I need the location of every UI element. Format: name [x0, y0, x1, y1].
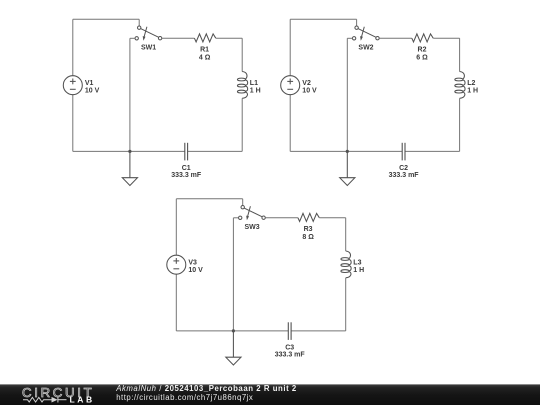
- wire branch vertical (SW1 left contact to ground node): [129, 38, 131, 151]
- capacitor C1: [185, 143, 188, 161]
- wire jog down to SW2 common: [356, 19, 358, 26]
- svg-text:SW1: SW1: [141, 45, 156, 52]
- switch SW3: [239, 206, 266, 221]
- svg-text:AkmalNuh / 20524103_Percobaan: AkmalNuh / 20524103_Percobaan 2 R unit 2: [115, 384, 297, 393]
- voltage source V3: [167, 255, 186, 274]
- wire left rail upper (V3 to top): [175, 199, 177, 255]
- svg-text:1 H: 1 H: [467, 88, 478, 95]
- svg-text:V3: V3: [188, 260, 197, 267]
- wire right rail upper (to L3): [345, 218, 347, 251]
- svg-text:http://circuitlab.com/ch7j7u86: http://circuitlab.com/ch7j7u86nq7jx: [116, 393, 253, 402]
- capacitor C3: [288, 322, 291, 340]
- wire SW1 right contact to R1: [162, 37, 195, 39]
- wire left rail upper (V1 to top): [72, 19, 74, 75]
- svg-text:333.3 mF: 333.3 mF: [389, 172, 420, 179]
- wire left rail lower (V2 to bottom): [289, 95, 291, 152]
- svg-text:10 V: 10 V: [302, 88, 317, 95]
- wire stub from SW2 left contact: [347, 37, 352, 39]
- wire right rail lower (L1 to bottom): [241, 98, 243, 151]
- resistor R2: [412, 34, 433, 42]
- voltage source V2: [281, 76, 300, 95]
- wire stub from SW3 left contact: [233, 217, 238, 219]
- svg-text:R1: R1: [200, 46, 209, 53]
- wire right rail lower (L2 to bottom): [459, 98, 461, 151]
- CircuitLab logo mini-schematic resistor and diode: [23, 397, 67, 403]
- svg-text:10 V: 10 V: [85, 88, 100, 95]
- inductor L3: [341, 251, 351, 278]
- wire R2 to right corner: [433, 37, 459, 39]
- resistor R3: [298, 213, 319, 221]
- wire bottom left segment (C3 to left rail): [176, 330, 288, 332]
- junction dot at ground node: [346, 150, 349, 153]
- svg-text:L2: L2: [467, 80, 475, 87]
- wire bottom right segment (C1 to right rail): [188, 150, 243, 152]
- svg-text:333.3 mF: 333.3 mF: [275, 351, 306, 358]
- wire jog down to SW3 common: [242, 199, 244, 206]
- wire branch vertical (SW2 left contact to ground node): [346, 38, 348, 151]
- inductor L2: [455, 72, 465, 99]
- svg-text:10 V: 10 V: [188, 267, 203, 274]
- ground symbol: [340, 151, 355, 185]
- wire top horizontal (V2 top to SW2): [290, 18, 356, 20]
- wire R3 to right corner: [319, 217, 345, 219]
- wire left rail upper (V2 to top): [289, 19, 291, 75]
- wire right rail lower (L3 to bottom): [345, 278, 347, 331]
- wire SW3 right contact to R3: [265, 217, 298, 219]
- ground symbol: [226, 331, 241, 365]
- wire bottom right segment (C2 to right rail): [405, 150, 460, 152]
- svg-text:V1: V1: [85, 80, 94, 87]
- svg-text:L1: L1: [250, 80, 258, 87]
- svg-text:1 H: 1 H: [250, 88, 261, 95]
- svg-text:SW3: SW3: [245, 224, 260, 231]
- svg-text:SW2: SW2: [358, 45, 373, 52]
- svg-text:V2: V2: [302, 80, 311, 87]
- wire branch vertical (SW3 left contact to ground node): [232, 218, 234, 331]
- junction dot at ground node: [232, 329, 235, 332]
- svg-text:L3: L3: [353, 259, 361, 266]
- svg-text:8 Ω: 8 Ω: [302, 234, 314, 241]
- junction dot at ground node: [128, 150, 131, 153]
- resistor R1: [194, 34, 215, 42]
- switch SW1: [135, 26, 162, 41]
- wire stub from SW1 left contact: [130, 37, 135, 39]
- svg-text:R3: R3: [304, 226, 313, 233]
- wire jog down to SW1 common: [138, 19, 140, 26]
- capacitor C2: [402, 143, 405, 161]
- wire top horizontal (V3 top to SW3): [176, 198, 242, 200]
- wire left rail lower (V3 to bottom): [175, 274, 177, 331]
- wire bottom left segment (C1 to left rail): [73, 150, 185, 152]
- svg-text:333.3 mF: 333.3 mF: [171, 172, 202, 179]
- wire bottom left segment (C2 to left rail): [290, 150, 402, 152]
- wire SW2 right contact to R2: [379, 37, 412, 39]
- switch SW2: [352, 26, 379, 41]
- ground symbol: [122, 151, 137, 185]
- wire top horizontal (V1 top to SW1): [73, 18, 139, 20]
- svg-text:LAB: LAB: [70, 395, 95, 405]
- svg-text:1 H: 1 H: [353, 267, 364, 274]
- svg-text:4 Ω: 4 Ω: [199, 54, 211, 61]
- inductor L1: [237, 72, 247, 99]
- wire right rail upper (to L2): [459, 38, 461, 71]
- wire bottom right segment (C3 to right rail): [291, 330, 346, 332]
- voltage source V1: [63, 76, 82, 95]
- svg-text:6 Ω: 6 Ω: [416, 54, 428, 61]
- wire left rail lower (V1 to bottom): [72, 95, 74, 152]
- wire right rail upper (to L1): [241, 38, 243, 71]
- footer bar: [0, 384, 540, 405]
- svg-text:R2: R2: [418, 46, 427, 53]
- wire R1 to right corner: [216, 37, 242, 39]
